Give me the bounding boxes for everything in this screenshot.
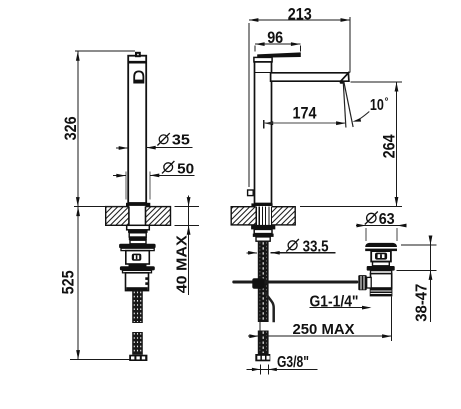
dimension 326 (faucet height) <box>77 51 79 206</box>
extension line counter top right <box>300 206 402 208</box>
dimension 174 (spout reach) <box>263 120 265 129</box>
dimension 264 (spout height above counter) <box>396 82 398 207</box>
front view: lever arch detail (D shape) <box>134 71 143 82</box>
front view: faucet body <box>128 56 146 203</box>
side view: lever base plate <box>254 57 272 62</box>
drain: rod clamp nut <box>358 275 366 290</box>
dimension diameter 35 <box>116 147 128 149</box>
side view: spout <box>271 73 349 81</box>
svg-text:33.5: 33.5 <box>303 238 329 255</box>
svg-text:174: 174 <box>293 105 318 123</box>
front view: nut band <box>128 230 148 233</box>
svg-text:35: 35 <box>172 132 190 149</box>
extension line spout height <box>351 81 403 83</box>
dimension 96 (lever length) <box>255 43 300 45</box>
drain: threaded tailpiece <box>370 288 393 296</box>
extension line at hose end (525 dim) <box>70 359 130 361</box>
extension line from faucet top (326 dim) <box>75 50 135 52</box>
side view: rod junction <box>252 278 264 289</box>
drain: body <box>371 274 392 288</box>
side view: nut band <box>253 234 274 237</box>
front view: washer flange <box>119 244 156 249</box>
svg-text:213: 213 <box>288 5 312 23</box>
side view: lever handle <box>257 52 301 57</box>
side view: flex hose lower segment <box>258 331 269 355</box>
extension line handle rear <box>248 23 250 187</box>
side view: mounting nut <box>254 229 272 233</box>
front view: washer band <box>121 248 154 250</box>
front view: hose manifold block <box>126 251 150 264</box>
side view: hose end fitting G3/8 <box>255 354 270 361</box>
svg-text:525: 525 <box>60 270 78 294</box>
side view: pop-up rod (horizontal) <box>232 281 358 284</box>
counter section (side view, hatched) <box>231 207 295 225</box>
side view: temperature stop tab <box>248 190 254 196</box>
side view: faucet body <box>255 62 272 204</box>
front view: spacer <box>130 240 146 244</box>
svg-text:250 MAX: 250 MAX <box>293 321 355 338</box>
drain: dimension diameter 63 <box>365 212 378 225</box>
extension line hose lower <box>259 322 261 342</box>
side view: bent lift rod <box>265 293 274 323</box>
front view: nut band 2 <box>129 237 147 240</box>
dimension diameter 50 <box>125 172 127 200</box>
extension line counter top left <box>74 206 126 208</box>
front view: flex hose lower segment <box>132 332 143 355</box>
svg-text:10: 10 <box>370 97 384 114</box>
front view: flex hose upper segment <box>132 291 143 323</box>
dimension diameter 33.5 (shank hole) <box>247 252 258 254</box>
drain: collar <box>373 262 390 266</box>
svg-text:40 MAX: 40 MAX <box>173 235 190 293</box>
extension line drain tailpiece <box>391 297 393 342</box>
front view: knob on faucet top <box>135 52 141 57</box>
drain: neck <box>371 251 391 261</box>
drain: gasket <box>371 271 392 274</box>
svg-text:50: 50 <box>177 160 194 177</box>
front view: lower washer <box>123 270 152 272</box>
svg-text:G3/8": G3/8" <box>277 354 309 371</box>
side view: mounting flange <box>251 225 275 230</box>
side view: cap joint line <box>255 72 272 74</box>
side view: aerator tip <box>341 73 349 81</box>
front view: block lower band <box>129 264 147 267</box>
side view: nut lower <box>256 237 270 241</box>
dimension 38-47 (basin thickness range) <box>401 244 436 246</box>
side view: threaded shank through counter <box>255 207 257 225</box>
front view: hose end fitting G3/8 <box>129 355 147 361</box>
front view: lower flange <box>120 266 155 270</box>
drain: pop-up cap <box>365 243 397 247</box>
front view: mounting nut <box>127 225 150 230</box>
dimension 40 MAX (counter thickness) <box>174 206 199 208</box>
svg-text:96: 96 <box>267 29 283 47</box>
svg-text:38-47: 38-47 <box>414 284 431 322</box>
svg-text:264: 264 <box>380 134 398 159</box>
front view: nut lower <box>129 233 146 237</box>
svg-text:°: ° <box>385 97 389 108</box>
drain: basin flange <box>367 266 395 271</box>
side view: base plate <box>251 203 272 206</box>
side view: flex hose upper segment <box>258 241 269 322</box>
svg-text:326: 326 <box>62 116 80 140</box>
dimension 250 MAX (rod reach) <box>248 335 392 337</box>
front view: cap joint band <box>128 61 146 64</box>
front view: base plate <box>126 203 150 207</box>
dimension 525 (height below counter) <box>77 207 79 360</box>
side view: water stream direction lines <box>343 83 346 128</box>
counter section (front view, hatched) <box>106 207 171 226</box>
dimension 213 (overall depth) <box>249 19 350 21</box>
front view: connector block <box>126 273 149 291</box>
extension line spout tip <box>349 17 351 72</box>
